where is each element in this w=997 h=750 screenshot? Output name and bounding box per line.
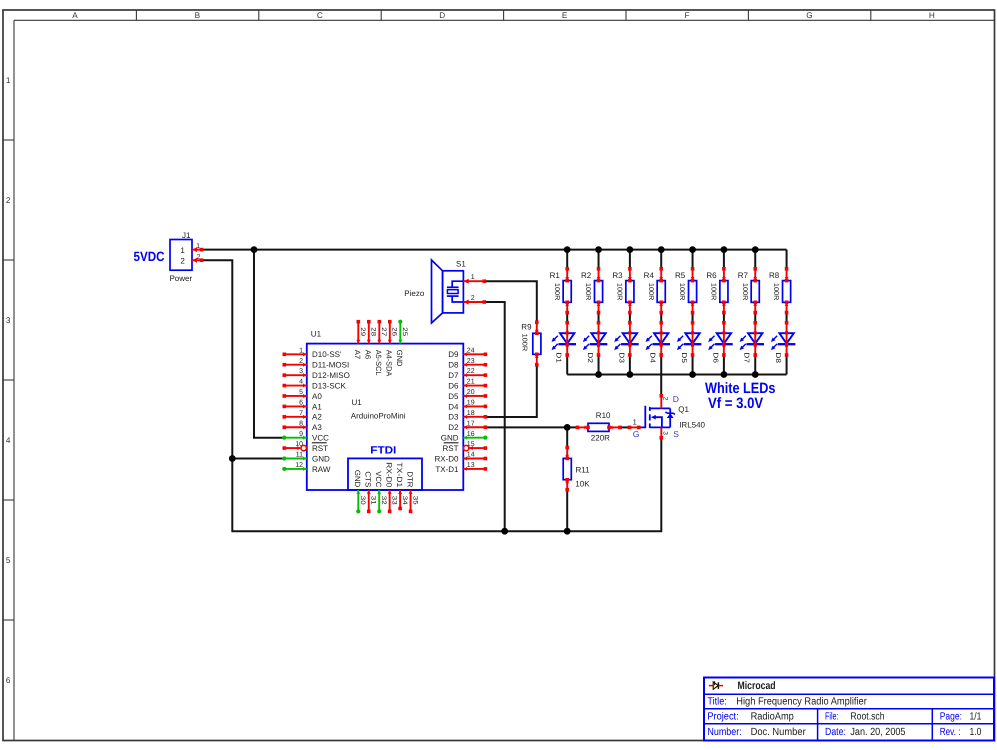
svg-text:D13-SCK: D13-SCK	[312, 381, 346, 390]
wire S1 pin2 down to GND bus	[484, 302, 504, 531]
junction GND branch at U1 pin 11	[229, 455, 236, 462]
junction LED bus at D7	[752, 371, 759, 378]
svg-text:D8: D8	[448, 361, 459, 370]
svg-text:3: 3	[299, 368, 303, 375]
junction 5VDC bus at R6	[721, 246, 728, 253]
svg-text:33: 33	[390, 496, 397, 505]
svg-text:11: 11	[296, 452, 303, 459]
pin U1.21 D6	[463, 385, 485, 387]
svg-text:29: 29	[359, 327, 366, 336]
connector J1 5VDC power header	[170, 240, 192, 271]
svg-text:6: 6	[6, 676, 11, 685]
svg-text:32: 32	[380, 496, 387, 505]
svg-text:3: 3	[662, 431, 669, 435]
svg-text:100R: 100R	[678, 283, 685, 301]
pin U1.16 GND	[463, 437, 485, 439]
svg-text:2: 2	[662, 397, 669, 401]
wire 5VDC bus drop to R5	[692, 250, 694, 269]
svg-text:30: 30	[359, 496, 366, 505]
pin Q1 drain (2)	[660, 396, 662, 409]
svg-text:Rev. :: Rev. :	[940, 727, 961, 738]
FTDI programming header of U1	[348, 458, 422, 490]
wire 5VDC bus drop to R6	[723, 250, 725, 269]
svg-text:1: 1	[633, 418, 637, 427]
svg-text:1.0: 1.0	[970, 727, 982, 738]
svg-text:GND: GND	[395, 350, 404, 367]
svg-text:R10: R10	[596, 411, 611, 420]
svg-text:E: E	[562, 11, 568, 20]
pin U1.7 A2	[284, 416, 307, 418]
svg-text:B: B	[195, 11, 201, 20]
svg-text:100R: 100R	[615, 283, 622, 301]
pin U1.13 TX-D1	[463, 468, 485, 470]
svg-text:A3: A3	[312, 423, 322, 432]
junction 5VDC bus at R7	[752, 246, 759, 253]
svg-text:25: 25	[401, 327, 408, 336]
junction LED bus at D6	[721, 371, 728, 378]
wire VCC branch down to U1 pin 9	[254, 250, 284, 438]
pin U1.9 VCC	[284, 437, 307, 439]
svg-text:H: H	[929, 11, 935, 20]
wire junction to R11 top	[566, 427, 568, 447]
pin U1.35 DTR (FTDI)	[410, 490, 412, 511]
pin Q1 source (3)	[660, 427, 662, 437]
svg-text:17: 17	[467, 420, 475, 427]
svg-text:28: 28	[369, 327, 376, 336]
pin U1.25 GND	[399, 322, 401, 344]
pin U1.1 D10-SS'	[284, 353, 307, 355]
svg-text:R4: R4	[644, 271, 655, 280]
svg-text:G: G	[806, 11, 812, 20]
svg-text:35: 35	[411, 496, 418, 505]
svg-text:26: 26	[390, 327, 397, 336]
op-amp U1 ArduinoProMini module	[307, 344, 464, 490]
svg-text:D8: D8	[774, 352, 781, 363]
svg-text:S1: S1	[456, 260, 466, 269]
svg-text:23: 23	[467, 358, 475, 365]
svg-text:R6: R6	[706, 271, 717, 280]
pin U1.19 D4	[463, 405, 485, 407]
wire D5 cathode to LED bus	[692, 355, 694, 375]
svg-text:R2: R2	[581, 271, 592, 280]
wire R1 bottom to D1 anode	[566, 313, 568, 323]
junction 5VDC bus at R1	[564, 246, 571, 253]
pin U1.12 RAW	[284, 468, 307, 470]
svg-text:TX-D1: TX-D1	[435, 465, 459, 474]
wire R8 bottom to D8 anode	[786, 313, 788, 323]
wire 5VDC bus drop to R1	[566, 250, 568, 269]
svg-text:D9: D9	[448, 350, 459, 359]
svg-text:Doc. Number: Doc. Number	[751, 727, 807, 738]
svg-text:12: 12	[295, 462, 303, 469]
svg-text:Page:: Page:	[940, 712, 962, 723]
wire 5VDC top bus from J1 pin1 to R8	[202, 249, 787, 251]
speaker S1 piezo	[432, 260, 443, 323]
junction 5VDC bus at R4	[658, 246, 665, 253]
svg-text:5: 5	[6, 556, 11, 565]
svg-text:GND: GND	[441, 434, 459, 443]
wire R4 bottom to D4 anode	[660, 313, 662, 323]
svg-text:TX-D1: TX-D1	[395, 462, 404, 487]
svg-text:R3: R3	[612, 271, 623, 280]
pin U1.31 CTS (FTDI)	[368, 490, 370, 511]
svg-text:R11: R11	[576, 466, 591, 475]
svg-text:A5-SCL: A5-SCL	[374, 350, 383, 376]
svg-text:22: 22	[467, 368, 475, 375]
svg-text:1: 1	[471, 274, 475, 281]
svg-text:D6: D6	[448, 381, 459, 390]
svg-text:D12-MISO: D12-MISO	[312, 371, 350, 380]
svg-text:D6: D6	[711, 352, 718, 363]
svg-text:100R: 100R	[647, 283, 654, 301]
svg-text:2: 2	[180, 256, 185, 265]
wire R5 bottom to D5 anode	[692, 313, 694, 323]
svg-text:FTDI: FTDI	[370, 444, 396, 456]
wire D2 cathode to LED bus	[598, 355, 600, 375]
svg-text:27: 27	[380, 327, 387, 336]
LED D4	[654, 333, 668, 343]
junction D2 net / R11	[564, 424, 571, 431]
svg-text:RX-D0: RX-D0	[434, 454, 459, 463]
svg-text:6: 6	[299, 400, 303, 407]
pin U1.33 RX-D0 (FTDI)	[389, 490, 391, 511]
pin S1.2	[463, 301, 484, 303]
svg-text:15: 15	[467, 441, 475, 448]
svg-text:10K: 10K	[575, 480, 590, 489]
junction 5VDC bus at R3	[626, 246, 633, 253]
LED D5	[685, 333, 699, 343]
svg-text:100R: 100R	[741, 283, 748, 301]
svg-text:C: C	[317, 11, 323, 20]
pin U1.2 D11-MOSI	[284, 364, 307, 366]
svg-text:D3: D3	[448, 413, 459, 422]
svg-text:R1: R1	[550, 271, 561, 280]
svg-text:34: 34	[401, 496, 408, 505]
svg-text:1/1: 1/1	[970, 712, 982, 723]
svg-text:D10-SS': D10-SS'	[312, 350, 342, 359]
pin U1.8 A3	[284, 426, 307, 428]
resistor R3 100R	[626, 281, 634, 303]
resistor R9 100R	[533, 333, 541, 354]
svg-text:A2: A2	[312, 413, 322, 422]
svg-text:File:: File:	[825, 712, 839, 723]
svg-text:D: D	[673, 394, 679, 404]
wire S1 pin1 to R9 top	[484, 281, 537, 322]
svg-text:A4-SDA: A4-SDA	[385, 350, 394, 378]
svg-text:100R: 100R	[584, 283, 591, 301]
svg-text:20: 20	[467, 389, 475, 396]
svg-text:D3: D3	[617, 352, 624, 363]
resistor R6 100R	[720, 281, 728, 303]
resistor R2 100R	[594, 281, 602, 303]
svg-text:RST: RST	[312, 444, 328, 453]
svg-text:Vf = 3.0V: Vf = 3.0V	[708, 395, 763, 412]
svg-text:A: A	[72, 11, 78, 20]
transistor Q1 IRL540 N-MOSFET	[640, 406, 645, 428]
wire R6 bottom to D6 anode	[723, 313, 725, 323]
pin U1.5 A0	[284, 395, 307, 397]
resistor R11 10K	[563, 458, 571, 479]
svg-text:100R: 100R	[772, 283, 779, 301]
svg-text:F: F	[684, 11, 689, 20]
svg-text:RAW: RAW	[312, 465, 331, 474]
svg-text:RX-D0: RX-D0	[385, 462, 394, 487]
pin U1.23 D8	[463, 364, 485, 366]
wire 5VDC bus drop to R4	[660, 250, 662, 269]
LED D6	[717, 333, 731, 343]
wire R3 bottom to D3 anode	[629, 313, 631, 323]
svg-text:High Frequency Radio Amplifier: High Frequency Radio Amplifier	[736, 697, 867, 708]
pin U1.28 A6	[368, 322, 370, 344]
wire D3 cathode to LED bus	[629, 355, 631, 375]
wire LED cathode bus	[567, 374, 786, 376]
svg-text:21: 21	[467, 379, 475, 386]
svg-text:100R: 100R	[710, 283, 717, 301]
svg-text:Title:: Title:	[707, 697, 726, 708]
svg-text:GND: GND	[312, 454, 330, 463]
junction 5VDC bus at R2	[595, 246, 602, 253]
svg-text:9: 9	[299, 431, 303, 438]
svg-text:2: 2	[6, 196, 11, 205]
junction 5VDC bus at R5	[689, 246, 696, 253]
svg-text:R5: R5	[675, 271, 686, 280]
svg-text:RST: RST	[443, 444, 459, 453]
svg-text:100R: 100R	[521, 334, 528, 352]
junction LED bus at D2	[595, 371, 602, 378]
svg-text:Root.sch: Root.sch	[850, 712, 884, 723]
pin U1.29 A7	[357, 322, 359, 344]
svg-text:2: 2	[197, 254, 201, 261]
pin U1.15 RST	[469, 447, 486, 449]
svg-text:D7: D7	[743, 352, 750, 363]
pin U1.18 D3	[463, 416, 485, 418]
svg-text:Jan. 20, 2005: Jan. 20, 2005	[850, 727, 905, 738]
svg-text:A0: A0	[312, 392, 322, 401]
wire 5VDC bus drop to R8	[786, 250, 788, 269]
svg-text:RadioAmp: RadioAmp	[751, 712, 794, 723]
LED D7	[748, 333, 762, 343]
pin J1.2	[192, 259, 202, 261]
pin Q1 gate (1)	[630, 426, 641, 428]
svg-text:4: 4	[299, 379, 303, 386]
svg-text:R7: R7	[738, 271, 749, 280]
wire 5VDC bus drop to R3	[629, 250, 631, 269]
svg-text:D5: D5	[448, 392, 459, 401]
junction GND bus / R11	[564, 528, 571, 535]
resistor R4 100R	[657, 281, 665, 303]
svg-text:18: 18	[467, 410, 475, 417]
wire R10 right to Q1 gate	[620, 426, 630, 428]
svg-text:2: 2	[471, 295, 475, 302]
svg-text:D2: D2	[448, 423, 459, 432]
svg-text:1: 1	[6, 76, 11, 85]
pin U1.30 GND (FTDI)	[357, 490, 359, 511]
wire 5VDC bus drop to R7	[754, 250, 756, 269]
LED D8	[779, 333, 793, 343]
resistor R7 100R	[751, 281, 759, 303]
svg-text:3: 3	[6, 316, 11, 325]
svg-text:14: 14	[467, 452, 475, 459]
svg-text:1: 1	[299, 347, 303, 354]
wire D4 cathode through bus down to Q1 drain	[660, 355, 662, 396]
pin U1.14 RX-D0	[463, 458, 485, 460]
svg-text:31: 31	[370, 496, 377, 505]
svg-text:Q1: Q1	[678, 405, 689, 414]
pin U1.4 D13-SCK	[284, 385, 307, 387]
svg-text:R8: R8	[769, 271, 780, 280]
svg-text:D4: D4	[448, 402, 459, 411]
svg-text:8: 8	[299, 420, 303, 427]
svg-text:ArduinoProMini: ArduinoProMini	[351, 412, 406, 421]
pin U1.11 GND	[284, 458, 307, 460]
svg-text:A1: A1	[312, 402, 322, 411]
pin U1.6 A1	[284, 405, 307, 407]
svg-text:Date:: Date:	[825, 727, 846, 738]
svg-text:7: 7	[299, 410, 303, 417]
svg-text:D1: D1	[555, 352, 562, 363]
svg-text:24: 24	[467, 347, 475, 354]
pin U1.22 D7	[463, 374, 485, 376]
svg-text:D5: D5	[680, 352, 687, 363]
svg-text:13: 13	[467, 462, 475, 469]
pin U1.24 D9	[463, 353, 485, 355]
svg-text:G: G	[633, 429, 640, 439]
svg-text:CTS: CTS	[364, 471, 373, 487]
wire R2 bottom to D2 anode	[598, 313, 600, 323]
pin U1.34 TX-D1 (FTDI)	[399, 490, 401, 509]
svg-text:Power: Power	[169, 274, 192, 283]
pin U1.3 D12-MISO	[284, 374, 307, 376]
resistor R8 100R	[783, 281, 791, 303]
wire R9 bottom to U1 pin 18 (D3)	[485, 365, 536, 417]
svg-text:1: 1	[196, 243, 200, 250]
svg-text:D7: D7	[448, 371, 459, 380]
pin U1.32 VCC (FTDI)	[378, 490, 380, 511]
junction GND bus / S1 pin2	[501, 528, 508, 535]
junction LED bus at D3	[626, 371, 633, 378]
wire D6 cathode to LED bus	[723, 355, 725, 375]
svg-text:16: 16	[467, 431, 475, 438]
junction 5VDC bus / VCC branch	[251, 246, 258, 253]
svg-text:J1: J1	[182, 231, 191, 240]
junction LED bus at D5	[689, 371, 696, 378]
pin U1.10 RST	[284, 447, 300, 449]
pin S1.1	[463, 280, 484, 282]
LED D1	[560, 333, 574, 343]
svg-text:VCC: VCC	[374, 471, 383, 488]
pin J1.1	[192, 249, 202, 251]
wire R11 bottom to GND bus	[566, 490, 568, 531]
wire D8 cathode to LED bus	[786, 355, 788, 375]
svg-text:DTR: DTR	[405, 472, 414, 488]
svg-text:1: 1	[180, 246, 185, 255]
resistor R1 100R	[563, 281, 571, 303]
svg-text:R9: R9	[521, 322, 532, 331]
svg-text:D: D	[439, 11, 445, 20]
svg-text:GND: GND	[353, 470, 362, 488]
LED D2	[591, 333, 605, 343]
wire U1 pin 17 (D2) to R10 and R11	[485, 426, 577, 428]
svg-text:5: 5	[299, 389, 303, 396]
svg-text:Number:: Number:	[707, 727, 741, 738]
svg-text:5VDC: 5VDC	[134, 249, 165, 264]
svg-text:VCC: VCC	[312, 434, 329, 443]
wire D1 cathode to LED bus	[566, 355, 568, 375]
wire R7 bottom to D7 anode	[754, 313, 756, 323]
svg-text:Project:: Project:	[707, 712, 738, 723]
svg-text:U1: U1	[311, 330, 322, 339]
svg-text:Piezo: Piezo	[404, 289, 425, 298]
svg-text:220R: 220R	[591, 433, 610, 442]
svg-text:4: 4	[6, 436, 11, 445]
svg-text:A7: A7	[353, 350, 362, 360]
pin U1.27 A5-SCL	[378, 322, 380, 344]
pin U1.26 A4-SDA	[389, 322, 391, 344]
svg-text:Microcad: Microcad	[738, 680, 776, 692]
wire GND loop from J1 pin2 along bottom to Q1 source	[202, 260, 662, 531]
svg-text:10: 10	[295, 441, 303, 448]
LED D3	[623, 333, 637, 343]
svg-text:IRL540: IRL540	[679, 421, 705, 430]
svg-text:19: 19	[467, 400, 475, 407]
svg-text:D4: D4	[649, 352, 656, 363]
pin U1.17 D2	[463, 426, 485, 428]
pin U1.20 D5	[463, 395, 485, 397]
svg-text:U1: U1	[352, 398, 363, 407]
svg-text:S: S	[673, 429, 679, 439]
resistor R10 220R	[588, 423, 609, 431]
wire GND branch to U1 pin 11	[232, 458, 284, 460]
svg-text:D11-MOSI: D11-MOSI	[312, 361, 349, 370]
wire D7 cathode to LED bus	[754, 355, 756, 375]
wire 5VDC bus drop to R2	[598, 250, 600, 269]
svg-text:2: 2	[299, 358, 303, 365]
svg-text:A6: A6	[364, 350, 373, 360]
resistor R5 100R	[689, 281, 697, 303]
svg-text:100R: 100R	[553, 283, 560, 301]
svg-text:D2: D2	[586, 352, 593, 363]
